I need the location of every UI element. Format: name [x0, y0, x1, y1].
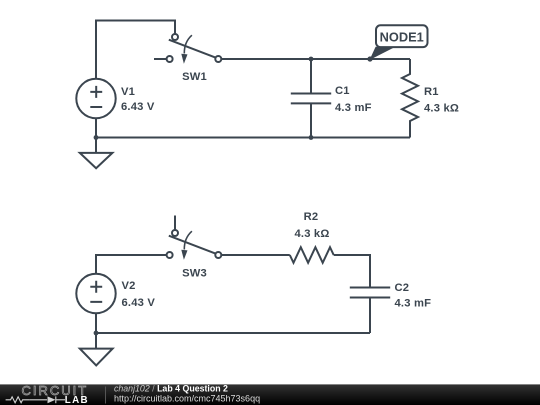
- wire V1 bottom: [95, 118, 97, 137]
- svg-text:SW3: SW3: [182, 268, 207, 280]
- capacitor C2: [350, 288, 390, 298]
- svg-text:4.3 kΩ: 4.3 kΩ: [424, 103, 459, 115]
- svg-text:6.43 V: 6.43 V: [121, 101, 155, 113]
- footer logo squiggle: [6, 396, 65, 403]
- node junction dot V1-ground: [94, 135, 99, 140]
- node NODE1 dot: [367, 56, 372, 61]
- wire C2 bottom: [369, 298, 371, 334]
- svg-text:V2: V2: [122, 280, 136, 292]
- wire V2 to SW3: [96, 255, 166, 274]
- svg-text:C2: C2: [395, 282, 410, 294]
- wire SW3 top stub: [174, 216, 176, 230]
- node junction dot V2-ground: [94, 331, 99, 336]
- svg-text:chanj102 / Lab 4 Question 2: chanj102 / Lab 4 Question 2: [114, 384, 228, 394]
- wire SW3 output to R2: [221, 254, 289, 256]
- wire SW1 left throw stub: [154, 58, 166, 60]
- NODE1 flag pointer: [370, 47, 396, 60]
- footer separator: [105, 387, 107, 404]
- wire top-left from V1 to SW1: [96, 21, 175, 80]
- wire bottom rail of top circuit: [96, 137, 410, 139]
- resistor R2: [290, 247, 334, 263]
- switch SW1: [167, 34, 222, 64]
- NODE1 flag box: [376, 25, 428, 47]
- svg-text:4.3 mF: 4.3 mF: [395, 297, 432, 309]
- wire bottom rail of bottom circuit: [96, 332, 370, 334]
- svg-text:R2: R2: [304, 211, 319, 223]
- wire V2 bottom: [95, 313, 97, 333]
- svg-text:http://circuitlab.com/cmc745h7: http://circuitlab.com/cmc745h73s6qq: [114, 393, 260, 403]
- ground bottom circuit: [80, 333, 113, 365]
- resistor R1: [402, 59, 418, 138]
- svg-text:4.3 mF: 4.3 mF: [335, 102, 372, 114]
- node junction dot C1 top: [309, 57, 314, 62]
- svg-text:LAB: LAB: [65, 395, 89, 405]
- node junction dot C1 bottom: [309, 135, 314, 140]
- voltage source V1: [76, 79, 115, 118]
- ground top circuit: [80, 138, 113, 169]
- svg-text:R1: R1: [424, 86, 439, 98]
- svg-text:SW1: SW1: [182, 71, 207, 83]
- switch SW3: [167, 230, 222, 260]
- capacitor C1: [291, 59, 331, 138]
- svg-text:V1: V1: [121, 86, 135, 98]
- wire SW1 output to R1 top: [221, 58, 410, 60]
- svg-text:6.43 V: 6.43 V: [122, 297, 156, 309]
- svg-text:C1: C1: [335, 85, 350, 97]
- voltage source V2: [76, 274, 115, 313]
- svg-text:NODE1: NODE1: [380, 29, 424, 44]
- wire R2 to C2: [334, 255, 370, 288]
- svg-text:4.3 kΩ: 4.3 kΩ: [294, 228, 329, 240]
